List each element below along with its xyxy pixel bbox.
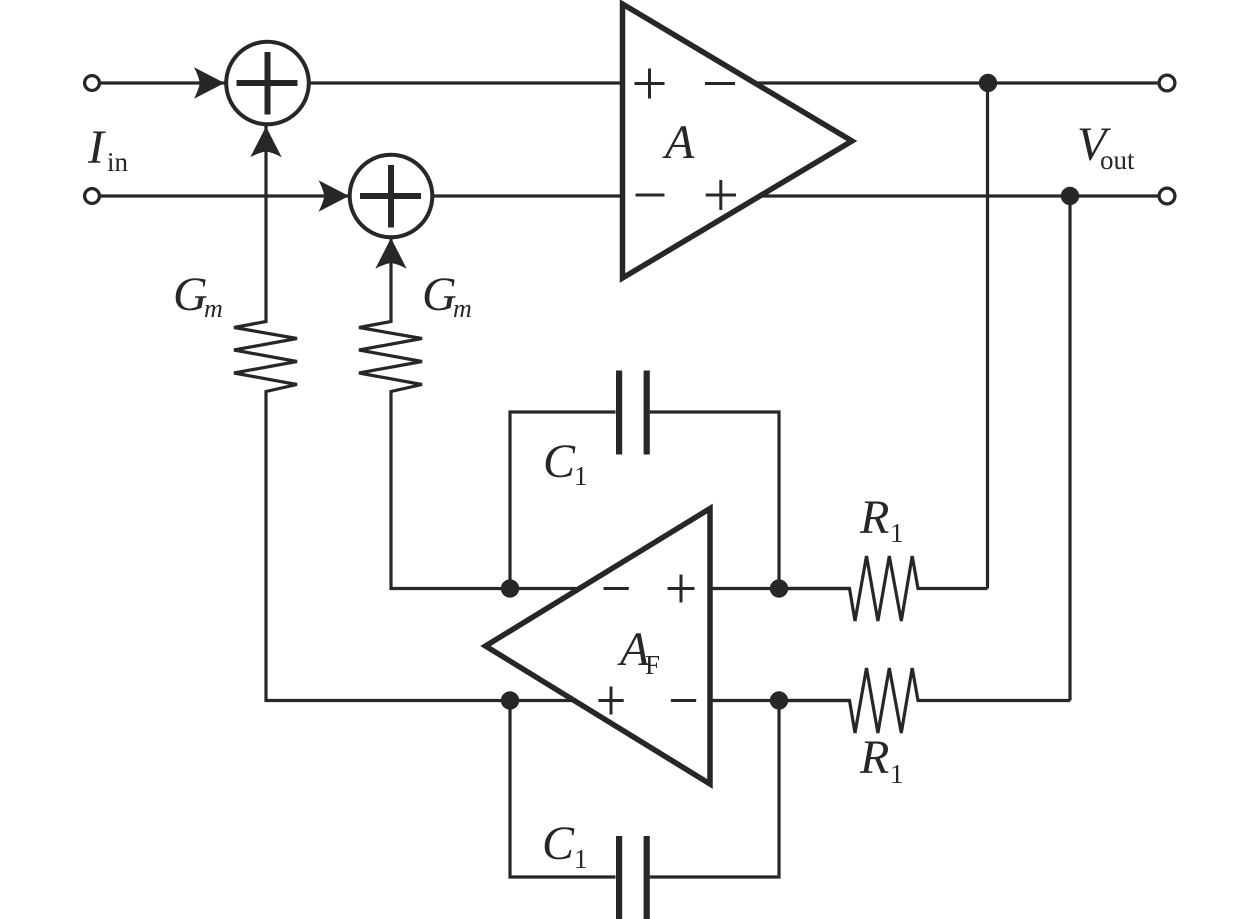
svg-text:m: m [204, 294, 223, 323]
svg-text:1: 1 [574, 461, 588, 491]
svg-text:out: out [1100, 145, 1135, 175]
svg-text:1: 1 [890, 518, 904, 548]
svg-text:F: F [645, 650, 660, 680]
svg-text:A: A [662, 116, 695, 169]
svg-text:C: C [543, 435, 576, 488]
svg-text:1: 1 [574, 844, 588, 874]
svg-text:G: G [173, 268, 208, 321]
svg-text:m: m [453, 294, 472, 323]
svg-text:G: G [422, 268, 457, 321]
svg-text:in: in [107, 147, 129, 177]
svg-text:R: R [859, 731, 889, 784]
svg-text:I: I [87, 121, 106, 174]
svg-text:1: 1 [890, 759, 904, 789]
svg-text:R: R [859, 491, 889, 544]
svg-text:C: C [542, 817, 575, 870]
